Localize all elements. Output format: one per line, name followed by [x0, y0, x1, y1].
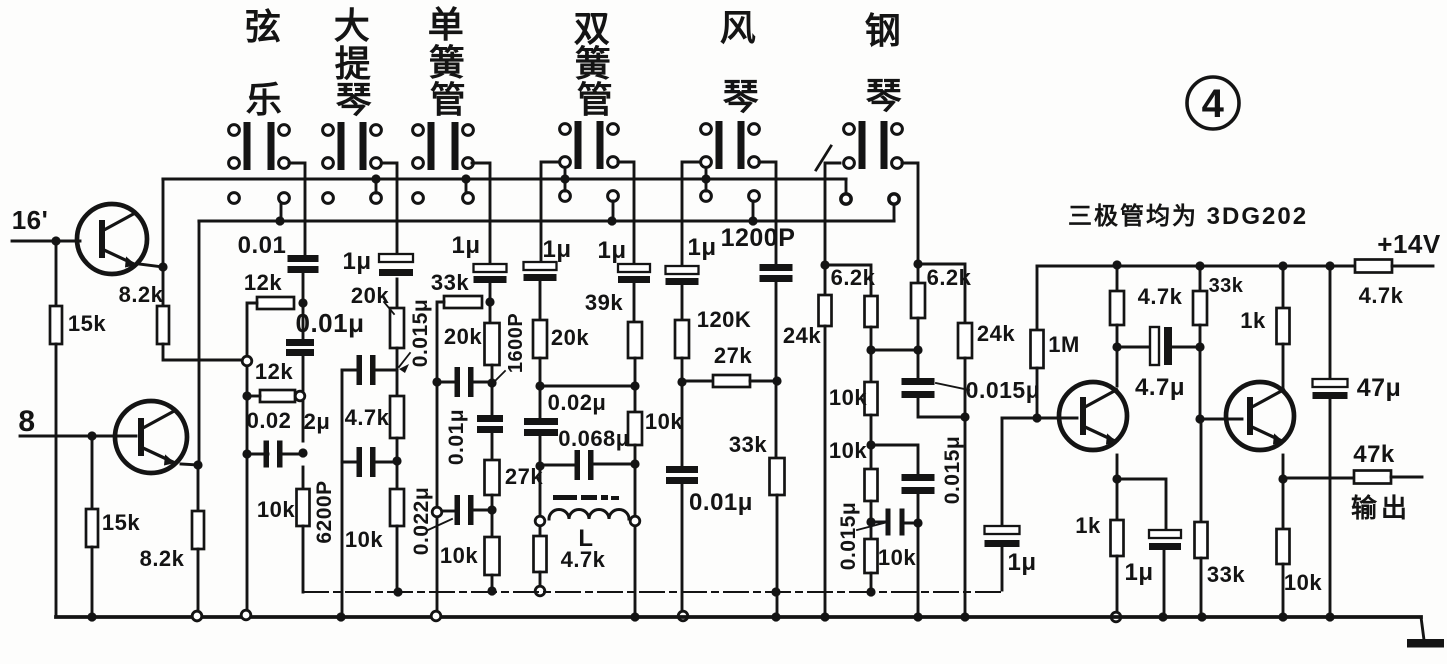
transistor Q4	[1226, 382, 1294, 450]
wire output	[1283, 477, 1354, 480]
resistor 1k	[1111, 520, 1124, 556]
wire	[634, 358, 637, 412]
leader 20k	[384, 302, 394, 314]
wire	[491, 433, 494, 460]
junction	[392, 456, 401, 465]
wire	[540, 464, 575, 467]
wire	[1199, 325, 1202, 419]
ground junction	[1278, 612, 1287, 621]
resistor 4.7k supply	[1355, 260, 1392, 273]
capacitor 47u	[1313, 379, 1348, 387]
capacitor 0.015u lower	[902, 474, 935, 481]
resistor 33k	[1193, 291, 1207, 325]
capacitor 1u bypass	[1149, 530, 1181, 538]
svg-text:琴: 琴	[336, 79, 373, 120]
wire	[1116, 266, 1119, 291]
resistor 6.2k right	[911, 283, 925, 318]
svg-text:大: 大	[334, 5, 371, 46]
resistor 20k	[533, 320, 547, 358]
wire S4 to filter D right	[618, 162, 634, 264]
switch S6 actuation slash	[816, 146, 831, 170]
ground junction	[630, 612, 639, 621]
wire	[442, 510, 454, 513]
resistor 27k	[485, 460, 500, 495]
svg-text:33k: 33k	[729, 432, 767, 457]
wire	[1392, 265, 1433, 268]
svg-text:10k: 10k	[829, 385, 867, 410]
wire S2 to filter B	[382, 163, 397, 254]
wire	[1036, 266, 1039, 330]
capacitor 1u	[379, 254, 413, 262]
wire	[1282, 479, 1285, 529]
wire	[870, 415, 873, 469]
pushbutton switch S3 单簧管	[413, 122, 474, 203]
wire: filter output rail	[303, 591, 1002, 593]
junction on bus2	[275, 216, 284, 225]
ground junction	[960, 612, 969, 621]
capacitor 1u	[666, 266, 699, 274]
svg-text:1M: 1M	[1048, 332, 1080, 357]
junction rail	[1278, 261, 1287, 270]
junction rail	[1112, 260, 1121, 269]
capacitor 0.02	[264, 441, 270, 468]
svg-text:10k: 10k	[345, 527, 383, 552]
capacitor (B lower)	[357, 447, 363, 477]
wire bus1 to Q1	[162, 179, 165, 267]
svg-text:1k: 1k	[1075, 513, 1101, 538]
resistor 15k (input 8)	[86, 509, 98, 547]
junction	[866, 517, 875, 526]
svg-text:6200P: 6200P	[313, 480, 336, 543]
ground terminal filter A	[241, 610, 251, 620]
capacitor 4.7u	[1150, 327, 1159, 365]
terminal bus2 end	[889, 194, 899, 204]
terminal on left rail	[432, 507, 442, 517]
svg-text:8: 8	[18, 405, 35, 438]
wire	[396, 348, 399, 396]
wire	[1199, 266, 1202, 291]
capacitor 0.022u	[455, 495, 461, 525]
terminal bus1 end	[841, 194, 851, 204]
wire S5 to bus2	[752, 201, 755, 221]
svg-text:乐: 乐	[246, 79, 283, 120]
wire	[1282, 564, 1285, 617]
svg-text:0.015μ: 0.015μ	[941, 436, 964, 504]
terminal on output rail	[535, 586, 545, 596]
wire S3 to filter C	[472, 163, 490, 264]
capacitor (C mid)	[455, 367, 461, 397]
svg-text:4: 4	[1202, 82, 1225, 126]
junction	[298, 448, 307, 457]
capacitor 1u coupling	[985, 526, 1020, 534]
capacitor 1u right	[618, 264, 650, 272]
pushbutton switch S4 双簧管	[560, 121, 619, 201]
junction	[960, 412, 969, 421]
wire output end	[1391, 476, 1422, 479]
resistor 8.2k (Q2 load)	[192, 511, 204, 549]
junction on bus1	[461, 174, 470, 183]
junction	[866, 440, 875, 449]
svg-text:4.7k: 4.7k	[1138, 284, 1183, 309]
resistor 4.7k	[534, 536, 547, 572]
leader 0.015u	[936, 383, 969, 390]
inductor L	[549, 510, 629, 520]
wire S5 through bus1	[705, 168, 708, 191]
wire bus1 end	[845, 179, 848, 194]
ground terminal 8.2k	[192, 611, 202, 621]
wire to ground	[91, 547, 94, 617]
resistor 24k	[819, 295, 832, 326]
wire	[871, 521, 886, 524]
ground terminal filter C	[431, 611, 441, 621]
junction on bus2	[607, 216, 616, 225]
junction	[242, 449, 251, 458]
svg-text:1600P: 1600P	[505, 313, 527, 373]
svg-text:4.7k: 4.7k	[561, 547, 606, 572]
wire	[302, 467, 305, 489]
wire	[681, 484, 684, 611]
wire	[396, 526, 399, 592]
svg-text:20k: 20k	[551, 325, 589, 350]
svg-text:8.2k: 8.2k	[140, 546, 185, 571]
terminal to filter A	[242, 356, 252, 366]
svg-text:10k: 10k	[440, 543, 478, 568]
wire 16' input	[12, 240, 80, 243]
wire	[633, 283, 636, 322]
junction on output rail	[771, 587, 780, 596]
svg-text:12k: 12k	[244, 270, 282, 295]
junction	[1195, 342, 1204, 351]
wire S4 through bus1	[564, 168, 567, 191]
capacitor 0.01	[288, 255, 319, 262]
svg-text:4.7k: 4.7k	[345, 405, 390, 430]
wire S3 to bus1	[465, 179, 468, 193]
ground terminal	[192, 611, 202, 621]
wire	[918, 264, 965, 323]
wire	[870, 573, 873, 592]
svg-text:0.01μ: 0.01μ	[445, 409, 468, 465]
svg-text:0.022μ: 0.022μ	[410, 487, 433, 555]
wire	[681, 358, 684, 466]
wire	[1116, 479, 1119, 520]
wire	[539, 572, 542, 590]
wire	[342, 461, 356, 464]
wire	[302, 356, 305, 441]
resistor 4.7k	[1110, 291, 1124, 325]
junction on bus1	[371, 174, 380, 183]
capacitor (B upper)	[357, 355, 363, 385]
node Q2 emitter	[193, 460, 202, 469]
svg-text:弦: 弦	[245, 6, 282, 47]
svg-text:10k: 10k	[878, 545, 916, 570]
wire	[539, 527, 542, 536]
svg-text:1μ: 1μ	[1007, 549, 1036, 576]
capacitor (F small)	[886, 509, 891, 536]
resistor 27k	[713, 375, 750, 387]
node Q4 base	[1195, 414, 1204, 423]
leader 0.015u	[857, 523, 884, 530]
wire	[539, 436, 542, 514]
wire	[1200, 419, 1203, 522]
node 8 junction	[87, 431, 96, 440]
resistor 8.2k (Q1 load)	[157, 306, 169, 344]
ground junction	[820, 612, 829, 621]
svg-text:管: 管	[577, 79, 614, 120]
svg-text:47μ: 47μ	[1357, 374, 1402, 402]
capacitor 0.02u	[524, 418, 558, 425]
svg-text:簧: 簧	[429, 42, 466, 83]
svg-text:0.01μ: 0.01μ	[295, 308, 364, 338]
svg-text:风: 风	[720, 7, 757, 48]
wire	[917, 494, 920, 523]
wire	[1116, 556, 1119, 611]
svg-text:钢: 钢	[865, 10, 902, 51]
inductor right terminal	[630, 516, 640, 526]
svg-text:0.02: 0.02	[247, 408, 292, 433]
svg-text:10k: 10k	[257, 497, 295, 522]
svg-text:10k: 10k	[645, 409, 683, 434]
ground junction	[913, 612, 922, 621]
wire S5 to filter E right	[759, 162, 776, 264]
junction rail	[1325, 261, 1334, 270]
smudged stamp above inductor	[553, 495, 619, 500]
svg-text:单: 单	[428, 4, 465, 45]
transistor Q1	[77, 204, 147, 274]
resistor 10k F3	[865, 539, 878, 573]
wire	[917, 318, 920, 378]
wire	[1172, 346, 1200, 349]
junction on output rail	[393, 587, 402, 596]
wire	[1282, 266, 1285, 308]
svg-text:0.01μ: 0.01μ	[689, 489, 753, 516]
wire bus2 end	[893, 204, 896, 221]
junction	[913, 518, 922, 527]
junction on bus1	[560, 174, 569, 183]
junction	[487, 505, 496, 514]
svg-text:0.01: 0.01	[238, 232, 287, 259]
terminal 12k lower right	[295, 391, 305, 401]
ground junction	[1158, 612, 1167, 621]
svg-text:1μ: 1μ	[342, 248, 371, 275]
pushbutton switch S5 风琴	[701, 121, 760, 201]
ground terminal	[1111, 612, 1121, 622]
junction	[866, 345, 875, 354]
resistor 33k	[770, 458, 785, 495]
resistor 20k	[485, 323, 500, 365]
svg-text:10k: 10k	[1284, 570, 1322, 595]
wire D crossbar upper	[540, 385, 635, 388]
node F left	[820, 260, 829, 269]
svg-text:39k: 39k	[585, 290, 623, 315]
node 16' junction	[51, 236, 60, 245]
wire to amp base	[1001, 418, 1004, 524]
wire 8 input	[20, 435, 136, 438]
node Q4 emitter	[1278, 474, 1287, 483]
wire	[247, 303, 257, 356]
svg-text:20k: 20k	[351, 283, 389, 308]
resistor 15k (input 16')	[50, 306, 62, 344]
wire	[1163, 549, 1166, 617]
svg-text:琴: 琴	[723, 76, 760, 117]
resistor 4.7k	[390, 396, 404, 438]
wire Q1 emitter	[139, 264, 163, 267]
resistor 10k	[1277, 529, 1290, 564]
wire	[437, 381, 454, 384]
wire	[247, 395, 260, 398]
ground terminal	[678, 611, 688, 621]
junction	[772, 376, 781, 385]
resistor 24k right	[958, 323, 972, 358]
wire bus2 down to Q2	[198, 221, 201, 465]
inductor left terminal	[535, 516, 545, 526]
resistor 1M	[1031, 330, 1044, 368]
wire	[474, 381, 492, 384]
wire	[1117, 346, 1150, 349]
junction	[535, 461, 544, 470]
resistor 10k F1	[865, 382, 878, 415]
wire	[634, 445, 637, 617]
wire filter B left rail	[341, 370, 344, 617]
wire	[491, 495, 494, 537]
wire base Q4	[1200, 418, 1242, 421]
svg-text:1μ: 1μ	[542, 236, 571, 263]
wire	[396, 279, 399, 308]
svg-text:三极管均为 3DG202: 三极管均为 3DG202	[1068, 202, 1308, 230]
svg-text:+14V: +14V	[1377, 229, 1441, 259]
wire S6 to filter F right	[902, 163, 918, 264]
wire S5 to filter E	[682, 162, 699, 266]
svg-text:0.02μ: 0.02μ	[548, 390, 607, 415]
resistor 1k	[1277, 308, 1290, 344]
junction	[242, 391, 251, 400]
wire	[824, 326, 827, 617]
wire filter A left rail	[246, 366, 249, 611]
junction on bus1	[701, 174, 710, 183]
junction	[677, 377, 686, 386]
capacitor 0.01u	[477, 415, 503, 422]
svg-text:管: 管	[430, 79, 467, 120]
wire: ground bus	[56, 615, 1421, 619]
wire to ground symbol	[1421, 617, 1424, 640]
wire	[489, 283, 492, 323]
wire	[964, 358, 967, 617]
svg-text:24k: 24k	[977, 321, 1015, 346]
svg-text:120K: 120K	[697, 307, 752, 332]
bus 2 (8 signal bus)	[199, 219, 894, 222]
ground symbol	[1407, 639, 1444, 648]
ground junction filter B	[336, 612, 345, 621]
wire	[917, 523, 920, 617]
wire	[342, 369, 356, 372]
resistor 10k	[628, 412, 642, 445]
wire	[55, 241, 58, 306]
capacitor 0.01u	[666, 466, 698, 473]
wire +14V rail	[1037, 265, 1355, 268]
node	[485, 297, 494, 306]
junction	[913, 345, 922, 354]
svg-text:4.7k: 4.7k	[1359, 283, 1404, 308]
wire	[281, 453, 303, 456]
wire	[1329, 266, 1332, 380]
wire Q2 emitter	[181, 464, 198, 465]
wire S6 to filter F left	[825, 163, 840, 265]
transistor Q2	[115, 401, 187, 473]
svg-text:15k: 15k	[102, 510, 140, 535]
wire to output rail	[302, 526, 305, 592]
svg-text:1μ: 1μ	[1124, 559, 1153, 586]
wire	[825, 265, 871, 296]
wire	[870, 327, 873, 382]
wire	[871, 445, 918, 474]
resistor 10k	[297, 489, 310, 526]
wire	[197, 465, 200, 511]
resistor 12k upper	[257, 297, 294, 309]
wire	[396, 438, 399, 489]
wire	[376, 461, 397, 464]
pushbutton switch S6 钢琴	[841, 121, 903, 204]
svg-text:47k: 47k	[1353, 441, 1395, 468]
resistor 10k F2	[865, 469, 878, 501]
capacitor 1u left	[524, 262, 557, 270]
wire	[682, 380, 713, 383]
svg-text:0.015μ: 0.015μ	[837, 502, 860, 570]
junction	[487, 378, 496, 387]
svg-text:2μ: 2μ	[304, 409, 331, 434]
svg-text:1200P: 1200P	[721, 224, 796, 252]
wire	[376, 369, 397, 372]
ground junction	[87, 612, 96, 621]
junction	[630, 459, 639, 468]
wire	[917, 264, 920, 283]
wire S4 to bus2	[612, 201, 615, 221]
node	[298, 298, 307, 307]
wire	[824, 265, 827, 295]
svg-text:33k: 33k	[1209, 275, 1244, 297]
svg-text:16': 16'	[12, 205, 49, 235]
junction	[432, 377, 441, 386]
node Q3 base	[1032, 413, 1041, 422]
node Q3 emitter	[1112, 474, 1121, 483]
wire	[870, 501, 873, 539]
wire	[1329, 399, 1332, 617]
wire to ground	[55, 344, 58, 617]
svg-text:8.2k: 8.2k	[119, 282, 164, 307]
pushbutton switch S2 大提琴	[323, 122, 382, 203]
resistor 12k lower	[260, 390, 295, 402]
resistor 39k	[628, 322, 642, 358]
resistor 33k	[444, 296, 482, 308]
svg-text:1μ: 1μ	[451, 232, 480, 259]
resistor 6.2k	[865, 296, 878, 327]
wire to ground	[197, 549, 200, 611]
resistor 20k	[390, 308, 404, 348]
wire	[247, 453, 268, 456]
svg-text:6.2k: 6.2k	[831, 265, 876, 290]
capacitor 0.01u	[286, 339, 314, 346]
transistor Q3	[1059, 382, 1127, 450]
wire S1 to filter A	[289, 163, 305, 255]
wire	[918, 399, 965, 417]
leader 0.022u	[428, 519, 452, 530]
svg-text:4.7μ: 4.7μ	[1135, 374, 1185, 401]
capacitor 0.015u upper	[902, 378, 935, 385]
svg-text:20k: 20k	[444, 324, 482, 349]
resistor 47k output	[1354, 471, 1391, 484]
svg-text:提: 提	[335, 43, 372, 84]
junction on bus2	[748, 216, 757, 225]
wire	[474, 509, 492, 512]
junction	[630, 381, 639, 390]
